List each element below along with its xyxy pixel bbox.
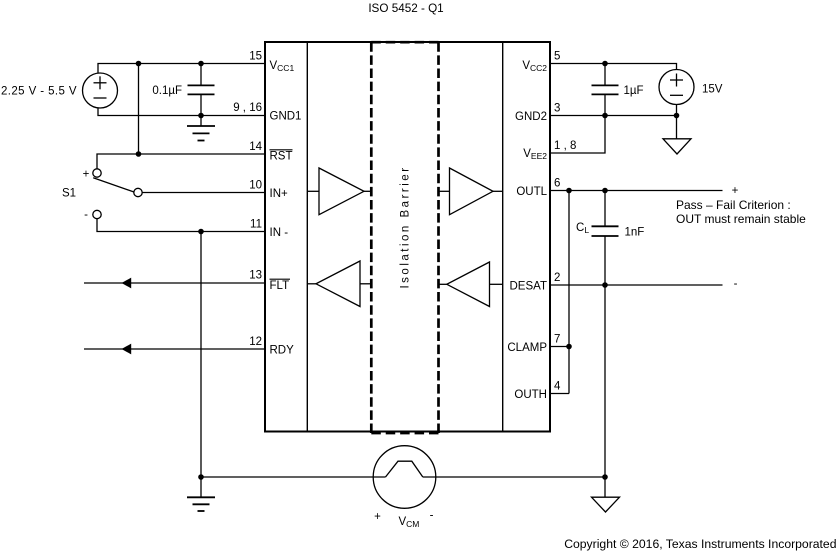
- wire stub U1B input: [439, 190, 450, 192]
- svg-text:FLT: FLT: [270, 280, 290, 292]
- label 15V: [702, 84, 723, 96]
- svg-text:2: 2: [554, 272, 560, 284]
- pin 5 label: [554, 51, 560, 63]
- node RST junction: [136, 151, 142, 157]
- label S1 plus: [83, 169, 90, 181]
- svg-text:GND1: GND1: [270, 111, 302, 123]
- svg-text:CL: CL: [576, 222, 589, 235]
- svg-text:-: -: [430, 510, 434, 522]
- svg-text:3: 3: [554, 103, 560, 115]
- node IN- junction: [198, 229, 204, 235]
- svg-text:VCM: VCM: [399, 516, 420, 529]
- wire bottom rail right of VCM: [423, 476, 605, 478]
- wire RDY: [84, 348, 265, 350]
- node C1 top junction: [198, 61, 204, 67]
- svg-text:VEE2: VEE2: [523, 148, 547, 161]
- label 0.1uF: [152, 85, 182, 97]
- svg-text:Isolation Barrier: Isolation Barrier: [400, 165, 412, 288]
- svg-text:DESAT: DESAT: [510, 281, 548, 293]
- svg-text:15V: 15V: [702, 84, 723, 96]
- title ISO 5452 - Q1: [368, 2, 443, 15]
- wire VCC2 rail: [550, 64, 677, 70]
- pin 2 label: [554, 272, 560, 284]
- IC U1 outline: [265, 42, 550, 432]
- wire IN-: [97, 219, 265, 232]
- capacitor C1 0.1uF: [188, 64, 215, 116]
- svg-text:OUTH: OUTH: [514, 389, 547, 401]
- wire stub U1A output: [364, 190, 371, 192]
- switch S1 minus terminal: [93, 210, 101, 218]
- svg-text:7: 7: [554, 334, 560, 346]
- wire OUTL: [550, 190, 723, 192]
- wire stub U1A input: [307, 190, 319, 192]
- wire V1 bottom stub and GND1 rail: [98, 108, 265, 116]
- pin VCC1 name: [270, 60, 295, 73]
- op-amp buffer U1C reverse left: [316, 261, 360, 307]
- pin VCC2 name: [522, 60, 547, 73]
- op-amp buffer U1A input side forward: [319, 168, 364, 215]
- svg-text:-: -: [84, 209, 88, 221]
- node OUTL junction CL: [602, 188, 608, 194]
- switch S1 arm: [93, 178, 134, 192]
- pin CLAMP name: [507, 342, 547, 354]
- svg-text:Pass – Fail Criterion :: Pass – Fail Criterion :: [676, 198, 791, 212]
- wire OUTL to CLAMP to OUTH vertical: [568, 191, 570, 394]
- pin VEE2 name: [523, 148, 547, 161]
- wire V2 bottom stub: [676, 105, 678, 116]
- isolation barrier label: [400, 165, 412, 288]
- label 1nF: [625, 227, 645, 239]
- pin OUTL name: [516, 186, 547, 198]
- node C1 bottom junction: [198, 113, 204, 119]
- svg-text:+: +: [83, 169, 90, 181]
- svg-text:11: 11: [250, 219, 262, 231]
- label VCM plus: [374, 511, 381, 523]
- node bottom rail left junction: [198, 474, 204, 480]
- svg-text:12: 12: [249, 336, 262, 348]
- wire CLAMP: [550, 346, 569, 348]
- voltage source V1 2.25V-5.5V: [83, 73, 118, 108]
- svg-text:2.25 V - 5.5 V: 2.25 V - 5.5 V: [1, 86, 77, 98]
- wire stub U1C output: [307, 283, 316, 285]
- svg-text:GND2: GND2: [515, 111, 547, 123]
- wire stub U1D input: [490, 283, 503, 285]
- op-amp buffer U1B output side forward: [450, 168, 494, 215]
- wire IN+: [142, 192, 265, 194]
- node bottom rail right junction: [602, 474, 608, 480]
- svg-text:10: 10: [249, 180, 262, 192]
- label DESAT minus: [734, 278, 738, 290]
- pin 7 label: [554, 334, 560, 346]
- label pass fail criterion: [676, 198, 806, 226]
- capacitor C2 1uF: [592, 64, 619, 116]
- wire GND2 rail: [550, 115, 677, 117]
- node C2 top junction: [602, 61, 608, 67]
- wire FLT: [84, 282, 265, 284]
- pin 12 label: [249, 336, 262, 348]
- label VCM minus: [430, 510, 434, 522]
- pin 4 label: [554, 381, 561, 393]
- capacitor CL 1nF: [592, 191, 619, 286]
- svg-text:Copyright © 2016, Texas Instru: Copyright © 2016, Texas Instruments Inco…: [564, 537, 836, 551]
- label 1uF: [624, 85, 644, 97]
- pin IN+ name: [270, 188, 289, 200]
- svg-text:-: -: [734, 278, 738, 290]
- ground triangle bottom right: [592, 477, 620, 512]
- wire stub U1D output: [439, 283, 447, 285]
- label 2.25 V - 5.5 V: [1, 86, 77, 98]
- pin OUTH name: [514, 389, 547, 401]
- svg-text:IN -: IN -: [270, 227, 289, 239]
- pin 15 label: [249, 51, 262, 63]
- label S1 minus: [84, 209, 88, 221]
- svg-text:RDY: RDY: [270, 345, 295, 357]
- source VCM common-mode generator: [373, 446, 436, 509]
- svg-text:0.1µF: 0.1µF: [152, 85, 182, 97]
- pin IN- name: [270, 227, 289, 239]
- svg-text:OUTL: OUTL: [516, 186, 547, 198]
- wire V1 top stub: [98, 64, 265, 74]
- wire OUTH: [550, 393, 569, 395]
- svg-text:VCC1: VCC1: [270, 60, 295, 73]
- wire RST rail: [97, 154, 265, 169]
- switch S1 common terminal: [134, 188, 142, 196]
- pin 1,8 label: [554, 140, 576, 152]
- wire IN- to bottom rail vertical: [200, 232, 202, 478]
- pin RST name with overline: [270, 150, 293, 163]
- pin 9,16 label: [233, 102, 262, 114]
- pin RDY name: [270, 345, 295, 357]
- svg-text:IN+: IN+: [270, 188, 289, 200]
- svg-text:+: +: [732, 185, 739, 197]
- svg-text:1 , 8: 1 , 8: [554, 140, 576, 152]
- wire DESAT to bottom rail vertical: [604, 285, 606, 477]
- pin DESAT name: [510, 281, 548, 293]
- arrow FLT output: [122, 278, 132, 289]
- label OUTL plus: [732, 185, 739, 197]
- ground triangle under V2: [663, 116, 691, 155]
- wire VEE2 tie to GND2: [550, 116, 605, 154]
- svg-text:+: +: [374, 511, 381, 523]
- pin FLT name with overline: [270, 279, 291, 292]
- node DESAT junction: [602, 282, 608, 288]
- copyright note: [564, 537, 836, 551]
- pin 11 label: [250, 219, 262, 231]
- label VCM: [399, 516, 420, 529]
- pin GND1 name: [270, 111, 302, 123]
- switch S1 plus terminal: [93, 169, 101, 177]
- pin 13 label: [249, 270, 262, 282]
- svg-text:S1: S1: [62, 188, 76, 200]
- svg-text:14: 14: [249, 141, 262, 153]
- node CLAMP junction: [566, 344, 572, 350]
- isolation barrier dashed box: [371, 42, 438, 433]
- pin 3 label: [554, 103, 560, 115]
- pin 14 label: [249, 141, 262, 153]
- svg-text:13: 13: [249, 270, 262, 282]
- node OUTL junction left: [566, 188, 572, 194]
- node C2 bottom junction: [602, 113, 608, 119]
- arrow RDY output: [122, 344, 132, 355]
- wire stub U1B output: [493, 190, 503, 192]
- svg-text:6: 6: [554, 178, 560, 190]
- pin 10 label: [249, 180, 262, 192]
- label CL: [576, 222, 589, 235]
- wire stub U1C input: [360, 283, 371, 285]
- wire DESAT: [550, 284, 723, 286]
- source V2 15V: [659, 70, 694, 105]
- label S1: [62, 188, 76, 200]
- svg-text:RST: RST: [270, 151, 293, 163]
- svg-text:9 , 16: 9 , 16: [233, 102, 262, 114]
- svg-text:5: 5: [554, 51, 560, 63]
- svg-text:CLAMP: CLAMP: [507, 342, 547, 354]
- pin GND2 name: [515, 111, 547, 123]
- op-amp buffer U1D reverse right: [447, 262, 490, 307]
- IC right pin column separator: [502, 43, 504, 431]
- svg-text:15: 15: [249, 51, 262, 63]
- wire bottom rail left of VCM: [201, 476, 386, 478]
- IC left pin column separator: [306, 43, 308, 431]
- svg-text:ISO 5452 - Q1: ISO 5452 - Q1: [368, 2, 443, 15]
- node V2 bottom junction: [674, 113, 680, 119]
- svg-text:1nF: 1nF: [625, 227, 645, 239]
- ground GND1 ladder under C1: [187, 116, 215, 141]
- wire VCC1 to RST vertical: [138, 64, 140, 155]
- svg-text:VCC2: VCC2: [522, 60, 547, 73]
- svg-text:4: 4: [554, 381, 561, 393]
- svg-text:1µF: 1µF: [624, 85, 644, 97]
- svg-text:OUT must remain stable: OUT must remain stable: [676, 212, 806, 226]
- pin 6 label: [554, 178, 560, 190]
- ground ladder bottom left: [187, 477, 215, 511]
- node VCC1 junction: [136, 61, 142, 67]
